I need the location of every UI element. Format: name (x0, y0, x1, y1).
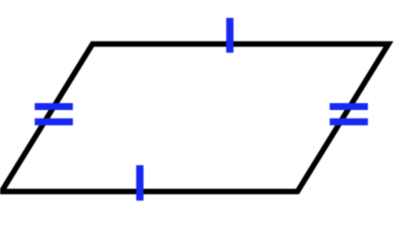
right side double tick bar 1 (330, 103, 368, 110)
left side double tick bar 1 (35, 103, 73, 110)
top side single tick (226, 18, 233, 53)
left side double tick bar 2 (35, 118, 73, 125)
parallelogram outline (2, 44, 389, 192)
right side double tick bar 2 (330, 118, 368, 125)
bottom side single tick (136, 165, 143, 200)
